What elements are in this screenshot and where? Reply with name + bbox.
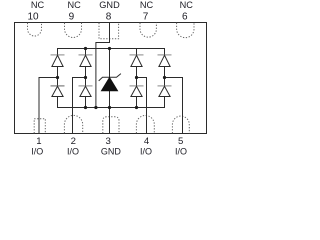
wire: top bus rail bbox=[58, 49, 165, 55]
svg-text:GND: GND bbox=[101, 147, 122, 157]
pin 7 pad (dashed cup) bbox=[140, 23, 156, 37]
svg-text:I/O: I/O bbox=[175, 147, 187, 157]
node: bottom rail / col3 bbox=[135, 106, 138, 109]
svg-text:1: 1 bbox=[36, 136, 41, 147]
pin 5 pad (dashed dome) bbox=[172, 116, 189, 133]
node: bottom rail / col2 bbox=[84, 106, 87, 109]
pin 1 pad (dashed box) bbox=[34, 119, 45, 134]
node: bottom rail / zener anode / pin3 bbox=[108, 106, 111, 109]
diode D1 bottom (column 1) bbox=[51, 78, 65, 97]
node: top rail / zener cathode bbox=[108, 47, 111, 50]
pin 2 pad (dashed dome) bbox=[64, 115, 82, 133]
svg-text:8: 8 bbox=[106, 11, 112, 22]
pin number labels (bottom) bbox=[36, 136, 183, 147]
wire: pin 4 riser to node C bbox=[137, 78, 147, 134]
svg-text:5: 5 bbox=[178, 136, 183, 147]
diode D1 top (column 1) bbox=[51, 55, 65, 78]
diode D2 bottom (column 2) bbox=[79, 78, 93, 108]
package outline bbox=[15, 23, 207, 134]
diode D3 bottom (column 3) bbox=[130, 78, 144, 108]
node C: col3 mid bbox=[135, 76, 138, 79]
node: bottom rail / pin8 jog bbox=[94, 106, 97, 109]
node D: col4 mid bbox=[163, 76, 166, 79]
diode D2 top (column 2) bbox=[79, 49, 93, 78]
svg-text:2: 2 bbox=[71, 136, 76, 147]
diode D4 top (column 4) bbox=[158, 55, 172, 78]
svg-text:GND: GND bbox=[99, 0, 120, 10]
svg-text:I/O: I/O bbox=[67, 147, 79, 157]
pin name labels (bottom) bbox=[31, 147, 187, 157]
svg-text:NC: NC bbox=[140, 0, 154, 10]
TVS zener Z1 (center) bbox=[99, 74, 121, 91]
pin 8 pad (dashed box) bbox=[99, 23, 119, 39]
svg-text:NC: NC bbox=[180, 0, 194, 10]
svg-text:NC: NC bbox=[67, 0, 81, 10]
svg-text:I/O: I/O bbox=[140, 147, 152, 157]
wire: pin 2 riser to node B bbox=[73, 78, 86, 134]
pin number labels (top) bbox=[27, 11, 188, 22]
node A: col1 mid bbox=[56, 76, 59, 79]
svg-text:4: 4 bbox=[144, 136, 150, 147]
wire: pin 5 riser to node D bbox=[165, 78, 183, 134]
svg-text:9: 9 bbox=[69, 11, 75, 22]
svg-text:I/O: I/O bbox=[31, 147, 43, 157]
diode D3 top (column 3) bbox=[130, 49, 144, 78]
node: top rail / col2 bbox=[84, 47, 87, 50]
node B: col2 mid bbox=[84, 76, 87, 79]
svg-text:6: 6 bbox=[182, 11, 188, 22]
pin 9 pad (dashed cup) bbox=[65, 23, 82, 38]
wire: pin 8 GND lead with jog to bottom rail bbox=[96, 23, 110, 108]
pin 10 pad (dashed cup) bbox=[28, 23, 42, 36]
wire: GND pin 3 / zener column bbox=[109, 49, 111, 134]
diode D4 bottom (column 4) bbox=[158, 78, 172, 97]
pin 6 pad (dashed cup) bbox=[177, 23, 194, 38]
svg-text:NC: NC bbox=[31, 0, 45, 10]
pin name labels (top) bbox=[31, 0, 193, 10]
svg-text:7: 7 bbox=[143, 11, 149, 22]
wire: pin 1 riser to node A bbox=[39, 78, 58, 134]
wire: bottom bus rail bbox=[58, 97, 165, 108]
junction dots bbox=[56, 47, 166, 109]
svg-text:3: 3 bbox=[106, 136, 111, 147]
svg-text:10: 10 bbox=[27, 11, 39, 22]
pin 4 pad (dashed dome) bbox=[136, 115, 154, 133]
pin 3 pad (dashed dome) bbox=[103, 117, 119, 134]
